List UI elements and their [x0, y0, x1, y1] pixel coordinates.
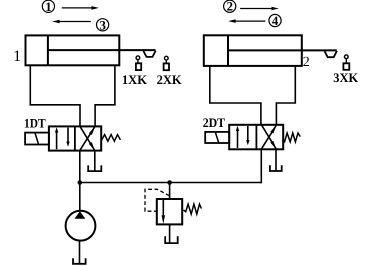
svg-text:2: 2	[227, 0, 233, 14]
svg-text:1: 1	[13, 48, 21, 65]
svg-text:2: 2	[303, 55, 310, 70]
svg-text:1DT: 1DT	[24, 116, 46, 131]
svg-text:3: 3	[99, 18, 105, 32]
svg-text:4: 4	[272, 14, 279, 28]
svg-text:2DT: 2DT	[203, 115, 226, 130]
svg-text:1XK: 1XK	[122, 72, 148, 87]
svg-text:3XK: 3XK	[333, 70, 359, 85]
svg-text:1: 1	[45, 0, 51, 14]
svg-text:2XK: 2XK	[157, 72, 183, 87]
